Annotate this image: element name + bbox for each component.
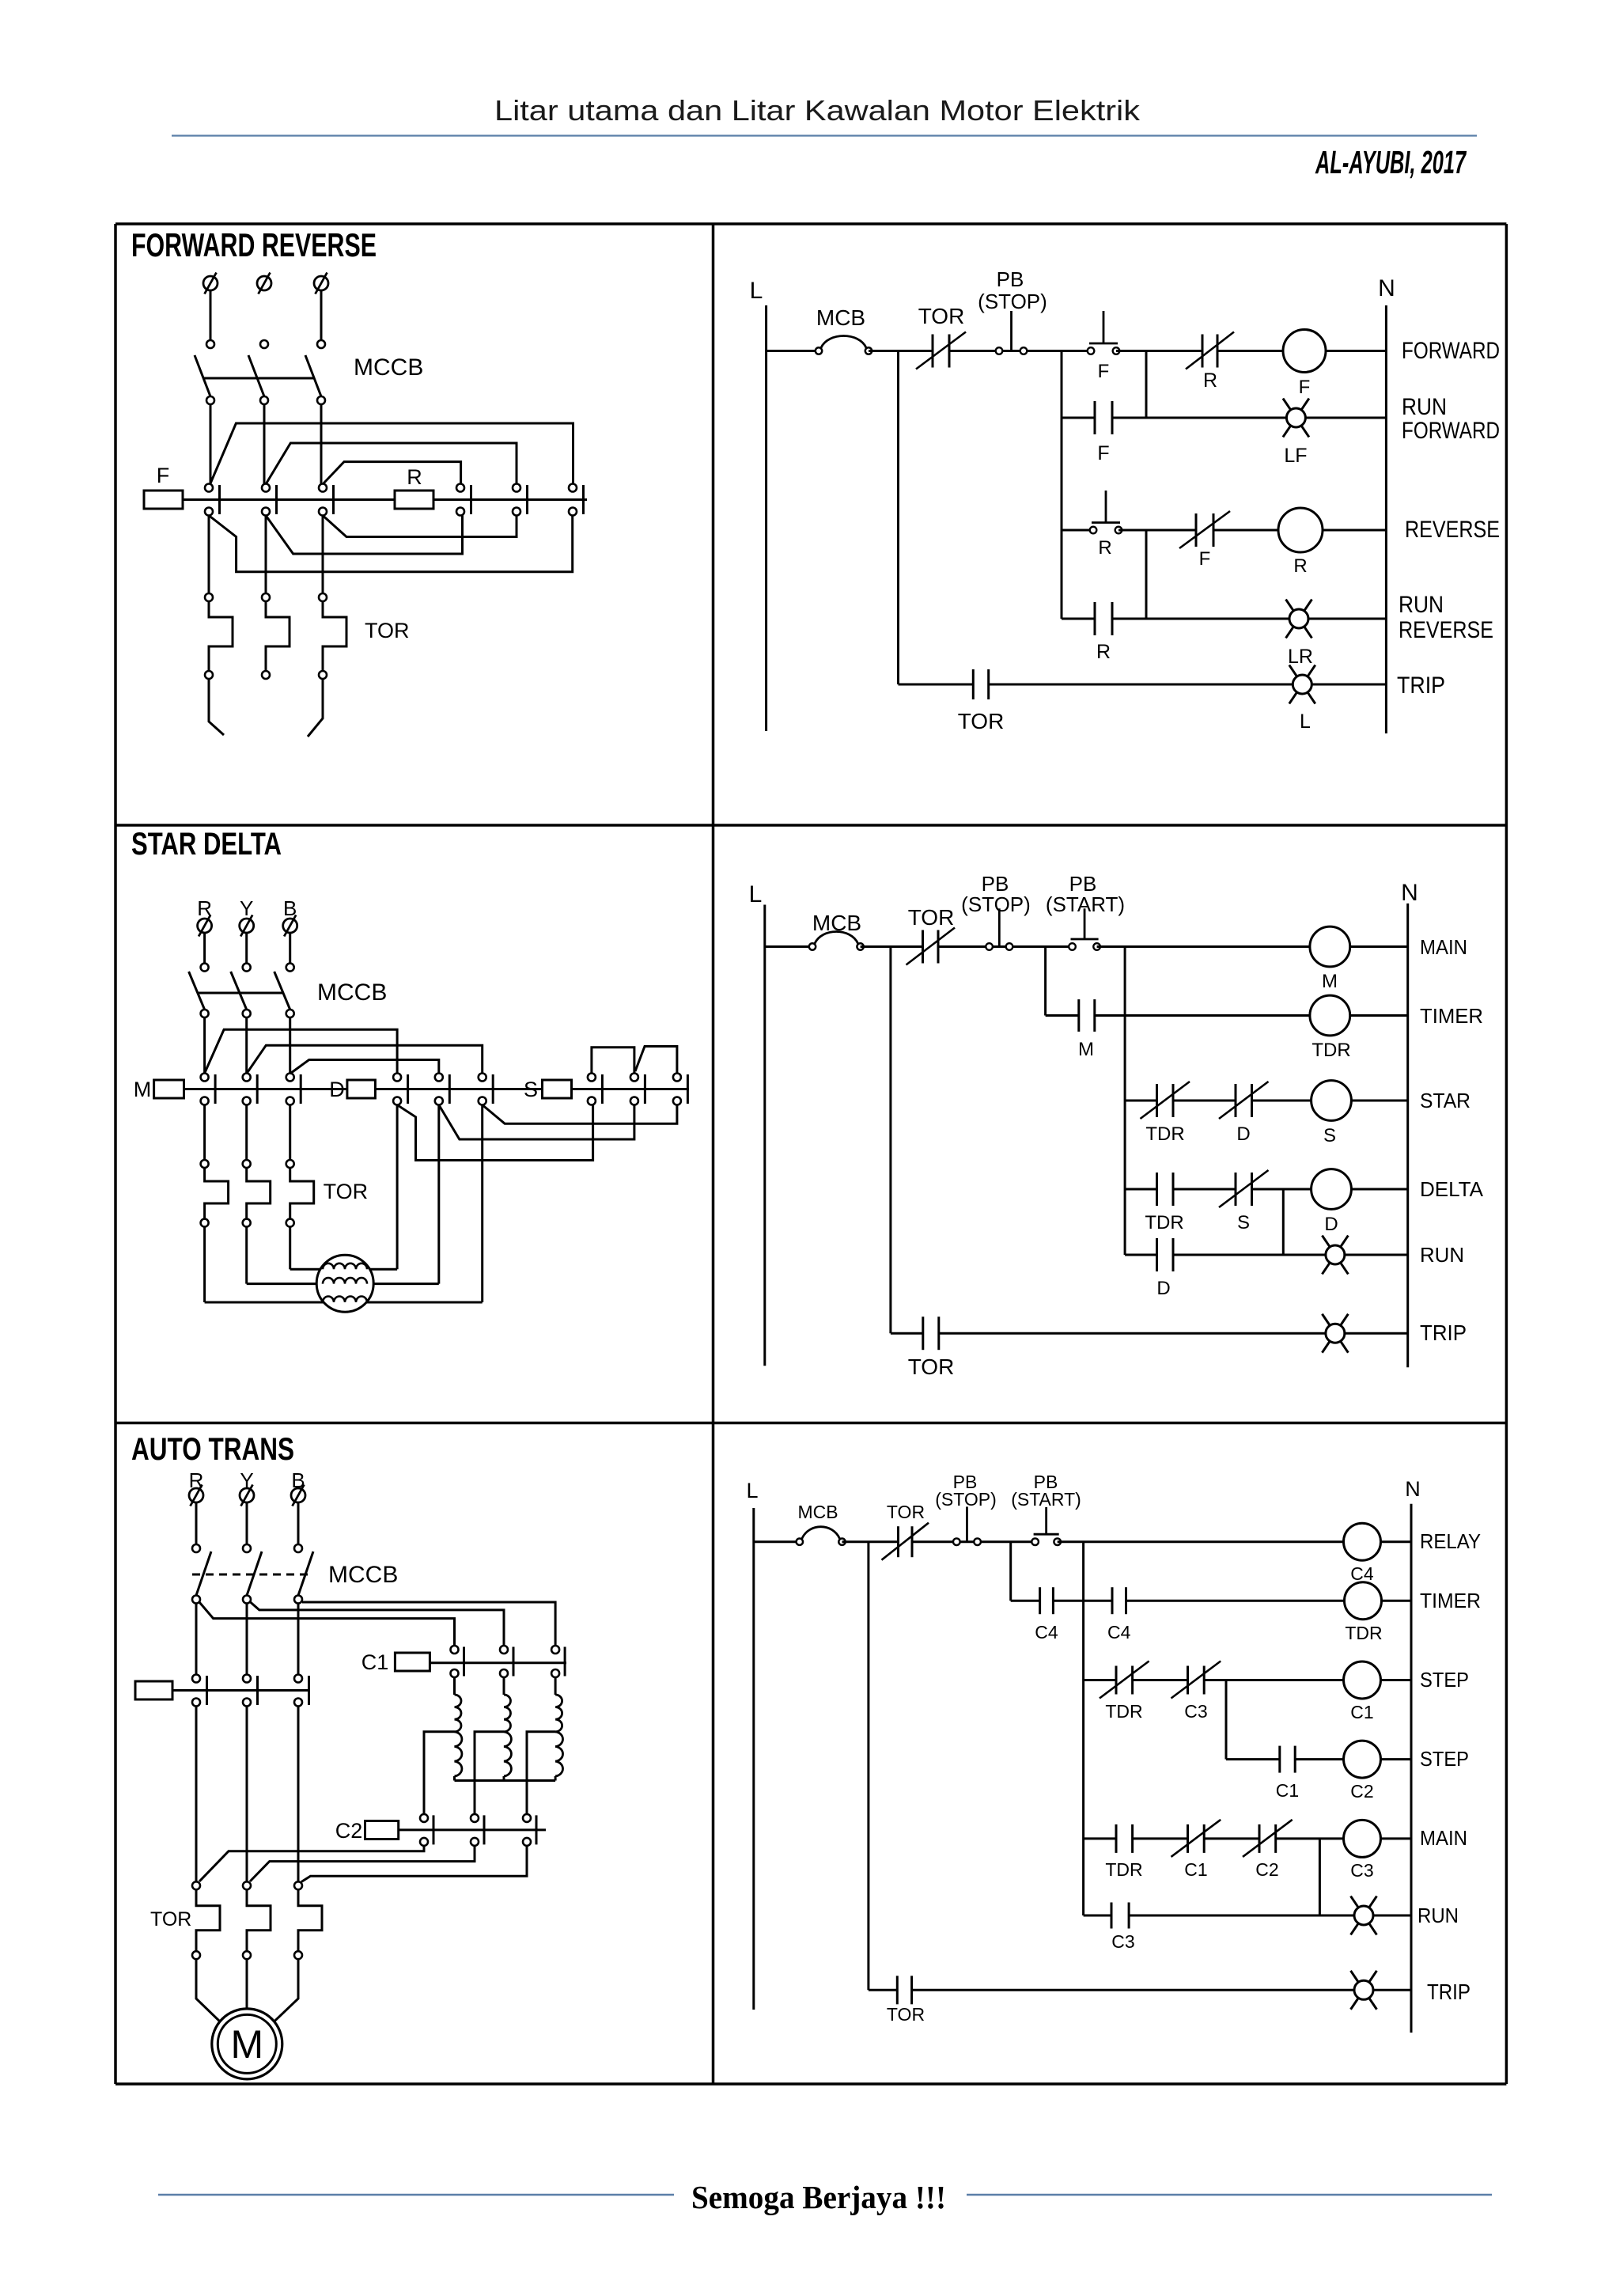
svg-text:R: R <box>1098 537 1111 559</box>
svg-text:M: M <box>230 2022 263 2067</box>
svg-text:F: F <box>157 464 170 487</box>
svg-text:M: M <box>1078 1039 1094 1060</box>
svg-text:AUTO TRANS: AUTO TRANS <box>131 1432 294 1467</box>
svg-text:RELAY: RELAY <box>1420 1529 1481 1553</box>
svg-text:MAIN: MAIN <box>1420 1826 1467 1850</box>
svg-text:M: M <box>134 1078 152 1101</box>
svg-text:L: L <box>746 1479 758 1502</box>
svg-text:(STOP): (STOP) <box>961 892 1031 916</box>
svg-text:N: N <box>1378 275 1395 301</box>
svg-text:TOR: TOR <box>908 905 955 930</box>
svg-text:C1: C1 <box>1350 1702 1373 1722</box>
svg-text:STEP: STEP <box>1420 1747 1469 1771</box>
svg-text:LR: LR <box>1288 646 1313 668</box>
svg-text:STAR DELTA: STAR DELTA <box>131 827 282 862</box>
svg-text:STEP: STEP <box>1420 1668 1469 1692</box>
svg-text:RUN: RUN <box>1402 394 1447 420</box>
svg-text:AL-AYUBI, 2017: AL-AYUBI, 2017 <box>1315 146 1467 181</box>
svg-text:TRIP: TRIP <box>1397 673 1445 699</box>
svg-text:F: F <box>1299 377 1311 398</box>
svg-text:D: D <box>1324 1214 1338 1235</box>
svg-text:C2: C2 <box>335 1819 363 1843</box>
svg-text:D: D <box>329 1078 345 1101</box>
svg-text:FORWARD: FORWARD <box>1402 418 1500 444</box>
svg-text:L: L <box>1300 710 1311 733</box>
svg-text:MCCB: MCCB <box>354 354 423 381</box>
svg-text:TOR: TOR <box>887 1502 925 1522</box>
svg-text:TDR: TDR <box>1345 1623 1382 1643</box>
svg-text:C2: C2 <box>1350 1781 1373 1802</box>
svg-text:TDR: TDR <box>1105 1859 1142 1880</box>
svg-text:C2: C2 <box>1255 1859 1278 1880</box>
svg-text:F: F <box>1098 361 1110 382</box>
svg-text:N: N <box>1401 880 1418 906</box>
svg-text:Litar utama dan Litar Kawalan: Litar utama dan Litar Kawalan Motor Elek… <box>494 94 1141 127</box>
svg-text:M: M <box>1322 971 1338 992</box>
svg-text:TOR: TOR <box>908 1354 955 1379</box>
svg-text:TOR: TOR <box>918 304 965 328</box>
svg-text:MAIN: MAIN <box>1420 935 1467 959</box>
svg-text:RUN: RUN <box>1420 1243 1464 1267</box>
svg-text:C4: C4 <box>1350 1563 1374 1584</box>
svg-text:TDR: TDR <box>1145 1212 1183 1233</box>
svg-text:(STOP): (STOP) <box>935 1489 997 1510</box>
svg-text:R: R <box>407 465 422 489</box>
svg-text:C1: C1 <box>361 1650 389 1674</box>
svg-text:S: S <box>1323 1125 1336 1146</box>
svg-text:TRIP: TRIP <box>1420 1320 1467 1345</box>
svg-text:TOR: TOR <box>324 1180 369 1203</box>
svg-text:RUN: RUN <box>1417 1904 1459 1927</box>
svg-text:L: L <box>750 278 763 304</box>
svg-text:(STOP): (STOP) <box>978 290 1047 313</box>
svg-text:TOR: TOR <box>887 2004 925 2025</box>
svg-text:C1: C1 <box>1276 1780 1299 1801</box>
svg-text:MCB: MCB <box>797 1502 838 1522</box>
svg-text:C3: C3 <box>1184 1701 1207 1722</box>
svg-text:TDR: TDR <box>1105 1701 1142 1722</box>
svg-text:TRIP: TRIP <box>1427 1980 1470 2004</box>
svg-text:F: F <box>1199 548 1211 570</box>
svg-text:S: S <box>524 1078 538 1101</box>
svg-text:TIMER: TIMER <box>1420 1589 1481 1612</box>
svg-text:C3: C3 <box>1111 1931 1134 1952</box>
svg-text:R: R <box>1096 641 1111 663</box>
svg-text:C3: C3 <box>1350 1860 1373 1881</box>
svg-text:F: F <box>1097 442 1109 464</box>
svg-text:C1: C1 <box>1184 1859 1207 1880</box>
svg-text:L: L <box>749 881 763 907</box>
svg-text:FORWARD: FORWARD <box>1402 338 1500 364</box>
svg-text:FORWARD REVERSE: FORWARD REVERSE <box>131 226 377 263</box>
svg-text:TDR: TDR <box>1312 1040 1350 1061</box>
svg-text:(START): (START) <box>1011 1489 1081 1510</box>
svg-text:Semoga Berjaya !!!: Semoga Berjaya !!! <box>691 2179 946 2215</box>
svg-text:S: S <box>1237 1212 1250 1233</box>
svg-text:MCCB: MCCB <box>328 1562 398 1588</box>
svg-text:RUN: RUN <box>1399 592 1444 618</box>
svg-text:N: N <box>1405 1477 1421 1501</box>
svg-text:STAR: STAR <box>1420 1089 1470 1112</box>
svg-text:TOR: TOR <box>150 1908 191 1930</box>
svg-text:TIMER: TIMER <box>1420 1004 1483 1028</box>
svg-text:REVERSE: REVERSE <box>1405 517 1500 543</box>
svg-text:D: D <box>1156 1278 1170 1299</box>
svg-text:(START): (START) <box>1046 892 1125 916</box>
svg-text:TDR: TDR <box>1145 1123 1184 1145</box>
svg-text:MCB: MCB <box>816 305 865 330</box>
svg-text:R: R <box>1203 369 1217 392</box>
svg-text:D: D <box>1236 1123 1250 1145</box>
svg-text:REVERSE: REVERSE <box>1399 617 1493 643</box>
svg-text:PB: PB <box>997 267 1024 291</box>
svg-text:R: R <box>1293 555 1307 577</box>
svg-text:TOR: TOR <box>365 619 410 642</box>
svg-text:MCCB: MCCB <box>317 979 387 1006</box>
svg-text:MCB: MCB <box>812 911 861 935</box>
svg-text:LF: LF <box>1284 445 1307 467</box>
svg-text:C4: C4 <box>1035 1622 1058 1642</box>
svg-text:DELTA: DELTA <box>1420 1177 1484 1201</box>
svg-text:TOR: TOR <box>958 709 1005 733</box>
svg-text:C4: C4 <box>1107 1622 1131 1642</box>
